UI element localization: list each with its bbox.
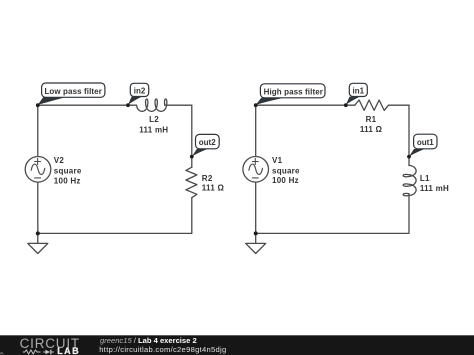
svg-text:in1: in1 [353,86,365,95]
footer bar background [0,335,474,355]
wire L2 right terminal to top-right corner [165,104,192,106]
svg-text:100 Hz: 100 Hz [272,176,299,185]
label R1 value [360,115,383,134]
CircuitLab logo resistor symbol [23,350,40,354]
svg-text:out2: out2 [199,138,216,147]
node label "Low pass filter" callout [36,83,105,107]
footer corner mark [0,352,3,354]
wire V2 bottom to ground node [37,182,39,243]
svg-text:111 mH: 111 mH [139,125,168,134]
node label "out1" callout [407,134,437,158]
ground symbol right [246,243,266,253]
wire R2 bottom to bottom-right corner and bottom rail [38,198,192,234]
node label "in2" callout [126,83,149,107]
svg-text:out1: out1 [417,138,434,147]
svg-text:L1: L1 [420,174,430,183]
svg-text:LAB: LAB [57,346,80,355]
node junction dot bottom-left right circuit [254,231,258,235]
inductor L1 [403,165,416,195]
voltage source V2 [25,157,51,183]
ground symbol left [28,243,48,253]
svg-text:111 Ω: 111 Ω [202,184,225,193]
label V1 value [272,156,300,185]
node label "High pass filter" callout [254,84,325,107]
label L1 value [420,174,449,193]
wire right rail top to resistor R2 [191,105,193,167]
node junction dot bottom-left [36,231,40,235]
label L2 value [139,115,168,134]
wire right rail top to inductor L1 [408,105,410,165]
wire V1 bottom to ground node [255,182,257,243]
node label "out2" callout [190,134,219,158]
svg-text:V2: V2 [54,156,65,165]
svg-text:greenc15 / Lab 4 exercise 2: greenc15 / Lab 4 exercise 2 [100,336,197,345]
svg-text:R2: R2 [202,174,213,183]
svg-text:square: square [54,166,82,175]
wire top-left to resistor R1 left terminal [256,104,355,106]
wire left rail top segment [37,105,39,156]
resistor R1 [355,100,389,110]
wire top-left to inductor L2 left terminal [38,104,137,106]
svg-text:High pass filter: High pass filter [264,87,323,96]
svg-text:http://circuitlab.com/c2e98gt4: http://circuitlab.com/c2e98gt4n5djg [99,345,226,354]
resistor R2 [186,167,197,198]
svg-text:V1: V1 [272,156,283,165]
svg-text:L2: L2 [149,115,159,124]
wire left rail top segment right circuit [255,105,257,156]
node label "in1" callout [344,83,367,107]
label R2 value [202,174,225,193]
svg-text:100 Hz: 100 Hz [54,176,81,185]
svg-text:R1: R1 [366,115,377,124]
CircuitLab logo diode symbol [43,350,54,355]
wire R1 right terminal to top-right corner [389,104,410,106]
svg-text:in2: in2 [134,86,146,95]
voltage source V1 [243,157,269,183]
svg-text:111 Ω: 111 Ω [360,125,383,134]
inductor L2 [137,99,167,111]
label V2 value [54,156,82,185]
wire L1 bottom to bottom-right corner and bottom rail [256,194,409,234]
svg-text:Low pass filter: Low pass filter [44,87,102,96]
svg-text:square: square [272,167,300,176]
svg-text:111 mH: 111 mH [420,184,449,193]
